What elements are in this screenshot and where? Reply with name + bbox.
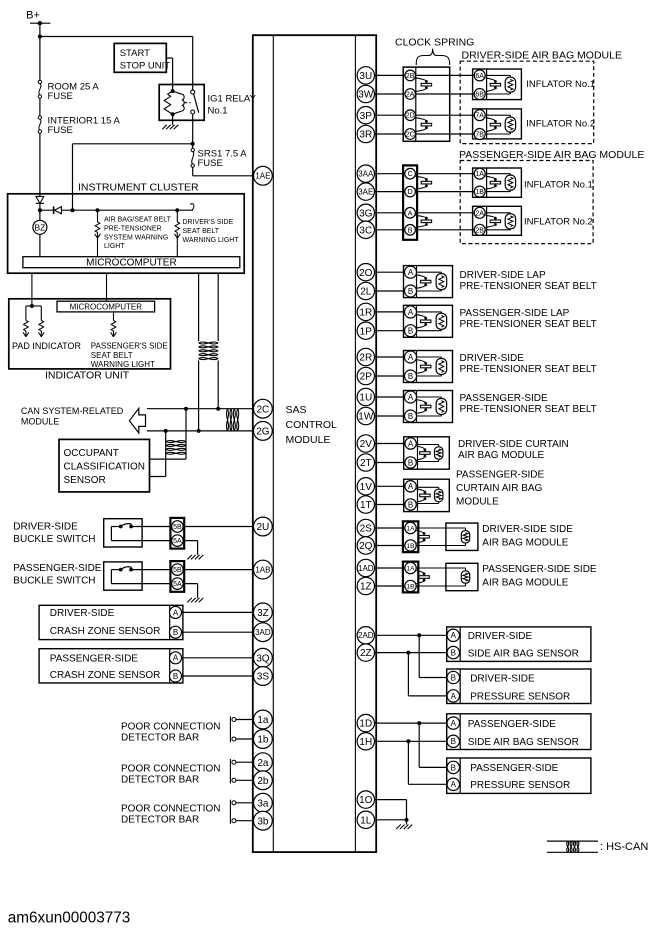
svg-text:AIR BAG MODULE: AIR BAG MODULE xyxy=(458,450,544,461)
svg-text:A: A xyxy=(451,692,457,701)
svg-text:D: D xyxy=(408,189,413,196)
svg-text:SIDE AIR BAG SENSOR: SIDE AIR BAG SENSOR xyxy=(468,648,579,659)
svg-text:1B: 1B xyxy=(475,189,484,196)
svg-text:2b: 2b xyxy=(257,776,269,787)
svg-text:FUSE: FUSE xyxy=(48,125,73,136)
svg-text:2R: 2R xyxy=(359,353,372,364)
svg-text:B: B xyxy=(408,227,413,234)
svg-text:1W: 1W xyxy=(358,412,374,423)
svg-text:A: A xyxy=(173,654,179,663)
svg-text:1T: 1T xyxy=(360,500,372,511)
svg-text:DRIVER-SIDE LAP: DRIVER-SIDE LAP xyxy=(460,270,546,281)
svg-text:2B: 2B xyxy=(406,73,415,80)
svg-text:3AA: 3AA xyxy=(358,170,374,179)
svg-text:7B: 7B xyxy=(475,132,484,139)
svg-text:1P: 1P xyxy=(360,326,373,337)
svg-text:2A: 2A xyxy=(475,210,484,217)
svg-text:PRE-TENSIONER SEAT BELT: PRE-TENSIONER SEAT BELT xyxy=(460,319,597,330)
svg-text:1V: 1V xyxy=(360,482,373,493)
svg-text:1A: 1A xyxy=(407,565,416,572)
svg-text:INDICATOR UNIT: INDICATOR UNIT xyxy=(45,370,130,382)
svg-text:2S: 2S xyxy=(360,524,373,535)
svg-text:No.1: No.1 xyxy=(208,106,228,117)
svg-text:PRE-TENSIONER: PRE-TENSIONER xyxy=(104,226,162,233)
svg-text:PASSENGER-SIDE SIDE: PASSENGER-SIDE SIDE xyxy=(482,564,597,575)
svg-text:A: A xyxy=(408,308,414,317)
svg-text:DRIVER-SIDE AIR BAG MODULE: DRIVER-SIDE AIR BAG MODULE xyxy=(462,49,622,61)
svg-text:C: C xyxy=(408,171,413,178)
svg-text:1AD: 1AD xyxy=(358,564,374,573)
svg-text:DRIVER-SIDE: DRIVER-SIDE xyxy=(50,608,115,619)
svg-text:FUSE: FUSE xyxy=(198,158,223,169)
svg-text:A: A xyxy=(408,393,414,402)
svg-text:B: B xyxy=(451,763,456,772)
svg-text:2AD: 2AD xyxy=(358,631,374,640)
svg-text:3a: 3a xyxy=(257,798,269,809)
svg-text:PASSENGER-SIDE: PASSENGER-SIDE xyxy=(460,393,548,404)
svg-text:CURTAIN AIR BAG: CURTAIN AIR BAG xyxy=(456,483,543,494)
svg-text:1U: 1U xyxy=(359,393,372,404)
svg-text:PASSENGER-SIDE: PASSENGER-SIDE xyxy=(456,470,544,481)
svg-text:BUCKLE SWITCH: BUCKLE SWITCH xyxy=(13,575,95,586)
svg-text:A: A xyxy=(451,780,457,789)
svg-text:DRIVER-SIDE: DRIVER-SIDE xyxy=(470,673,535,684)
svg-text:PASSENGER-SIDE: PASSENGER-SIDE xyxy=(468,719,556,730)
svg-text:START: START xyxy=(120,48,150,59)
svg-text:7A: 7A xyxy=(475,113,484,120)
svg-text:BUCKLE SWITCH: BUCKLE SWITCH xyxy=(13,534,95,545)
svg-text:B: B xyxy=(408,500,413,509)
svg-text:POOR CONNECTION: POOR CONNECTION xyxy=(121,722,220,733)
svg-text:2T: 2T xyxy=(360,458,372,469)
svg-text:SEAT BELT: SEAT BELT xyxy=(183,228,220,235)
svg-text:BZ: BZ xyxy=(34,222,45,232)
svg-text:1D: 1D xyxy=(359,719,372,730)
svg-text:PASSENGER'S SIDE: PASSENGER'S SIDE xyxy=(91,342,168,351)
svg-text:1AB: 1AB xyxy=(255,565,270,574)
svg-text:CRASH ZONE SENSOR: CRASH ZONE SENSOR xyxy=(50,626,161,637)
svg-text:5A: 5A xyxy=(173,538,182,545)
svg-text:AIR BAG/SEAT BELT: AIR BAG/SEAT BELT xyxy=(104,217,172,224)
svg-text:A: A xyxy=(408,439,414,448)
svg-text:SAS: SAS xyxy=(286,404,307,416)
svg-text:5A: 5A xyxy=(173,581,182,588)
svg-text:STOP UNIT: STOP UNIT xyxy=(120,61,171,72)
svg-text:3S: 3S xyxy=(257,672,270,683)
svg-text:MODULE: MODULE xyxy=(456,497,499,508)
svg-text:FUSE: FUSE xyxy=(48,91,73,102)
svg-text:2C: 2C xyxy=(406,132,415,139)
svg-text:1b: 1b xyxy=(257,735,269,746)
svg-text:A: A xyxy=(408,268,414,277)
svg-text:A: A xyxy=(408,210,413,217)
svg-text:A: A xyxy=(451,719,457,728)
svg-text:B: B xyxy=(451,673,456,682)
svg-text:MODULE: MODULE xyxy=(21,416,60,426)
svg-text:1B: 1B xyxy=(407,583,415,590)
svg-text:PASSENGER-SIDE: PASSENGER-SIDE xyxy=(470,763,558,774)
svg-text:DETECTOR BAR: DETECTOR BAR xyxy=(121,733,199,744)
svg-text:B: B xyxy=(408,327,413,336)
svg-text:CAN SYSTEM-RELATED: CAN SYSTEM-RELATED xyxy=(21,406,124,416)
svg-text:3AE: 3AE xyxy=(358,187,373,196)
svg-text:IG1 RELAY: IG1 RELAY xyxy=(208,94,257,105)
svg-text:2G: 2G xyxy=(256,427,270,438)
svg-text:PASSENGER-SIDE: PASSENGER-SIDE xyxy=(50,654,138,665)
svg-text:DRIVER-SIDE CURTAIN: DRIVER-SIDE CURTAIN xyxy=(458,439,569,450)
svg-text:5B: 5B xyxy=(173,524,182,531)
svg-text:POOR CONNECTION: POOR CONNECTION xyxy=(121,764,220,775)
svg-text:1O: 1O xyxy=(359,795,373,806)
svg-text:B+: B+ xyxy=(26,10,40,22)
svg-text:3b: 3b xyxy=(257,816,269,827)
svg-text:AIR BAG MODULE: AIR BAG MODULE xyxy=(482,578,568,589)
svg-text:A: A xyxy=(408,353,414,362)
svg-text:B: B xyxy=(408,287,413,296)
svg-text:: HS-CAN: : HS-CAN xyxy=(600,841,648,853)
svg-text:6B: 6B xyxy=(475,92,484,99)
svg-text:A: A xyxy=(451,631,457,640)
svg-text:INFLATOR No.2: INFLATOR No.2 xyxy=(524,217,593,228)
svg-text:1B: 1B xyxy=(407,543,415,550)
svg-text:1Z: 1Z xyxy=(360,582,372,593)
svg-text:PRESSURE SENSOR: PRESSURE SENSOR xyxy=(470,692,570,703)
svg-text:CLASSIFICATION: CLASSIFICATION xyxy=(64,462,146,473)
svg-text:CRASH ZONE SENSOR: CRASH ZONE SENSOR xyxy=(50,670,161,681)
svg-text:B: B xyxy=(408,458,413,467)
svg-text:MICROCOMPUTER: MICROCOMPUTER xyxy=(86,258,177,269)
svg-text:INFLATOR No.1: INFLATOR No.1 xyxy=(526,79,595,90)
svg-text:WARNING LIGHT: WARNING LIGHT xyxy=(183,237,240,244)
svg-text:A: A xyxy=(408,482,414,491)
svg-text:2P: 2P xyxy=(360,372,373,383)
svg-text:3AD: 3AD xyxy=(255,628,271,637)
svg-text:3Z: 3Z xyxy=(257,608,269,619)
svg-text:PAD INDICATOR: PAD INDICATOR xyxy=(12,341,82,351)
svg-text:5B: 5B xyxy=(173,567,182,574)
svg-text:INFLATOR No.2: INFLATOR No.2 xyxy=(526,118,595,129)
svg-text:3P: 3P xyxy=(360,111,373,122)
svg-text:2Z: 2Z xyxy=(360,648,372,659)
svg-text:2D: 2D xyxy=(406,113,415,120)
svg-text:3C: 3C xyxy=(359,225,372,236)
svg-text:SENSOR: SENSOR xyxy=(64,475,106,486)
svg-text:1H: 1H xyxy=(359,737,372,748)
svg-text:DRIVER'S SIDE: DRIVER'S SIDE xyxy=(183,219,234,226)
svg-text:CONTROL: CONTROL xyxy=(286,419,337,431)
svg-text:DRIVER-SIDE: DRIVER-SIDE xyxy=(13,522,78,533)
svg-text:2U: 2U xyxy=(257,522,270,533)
svg-text:DETECTOR BAR: DETECTOR BAR xyxy=(121,815,199,826)
svg-text:DRIVER-SIDE: DRIVER-SIDE xyxy=(460,353,525,364)
svg-text:2a: 2a xyxy=(257,758,269,769)
svg-text:3R: 3R xyxy=(359,130,372,141)
svg-text:2V: 2V xyxy=(360,439,373,450)
svg-text:B: B xyxy=(451,737,456,746)
svg-text:1AE: 1AE xyxy=(255,172,270,181)
svg-text:MICROCOMPUTER: MICROCOMPUTER xyxy=(70,303,143,312)
svg-text:DRIVER-SIDE: DRIVER-SIDE xyxy=(468,631,533,642)
svg-text:AIR BAG MODULE: AIR BAG MODULE xyxy=(482,538,568,549)
svg-text:2L: 2L xyxy=(360,287,372,298)
svg-text:2O: 2O xyxy=(359,268,373,279)
svg-text:DRIVER-SIDE SIDE: DRIVER-SIDE SIDE xyxy=(482,524,573,535)
svg-text:1R: 1R xyxy=(359,308,372,319)
svg-text:POOR CONNECTION: POOR CONNECTION xyxy=(121,804,220,815)
svg-text:PASSENGER-SIDE AIR BAG MODULE: PASSENGER-SIDE AIR BAG MODULE xyxy=(459,149,644,161)
svg-text:B: B xyxy=(173,628,178,637)
svg-text:INSTRUMENT CLUSTER: INSTRUMENT CLUSTER xyxy=(78,182,199,194)
svg-text:B: B xyxy=(408,372,413,381)
svg-text:PASSENGER-SIDE: PASSENGER-SIDE xyxy=(13,563,101,574)
svg-text:1A: 1A xyxy=(407,525,416,532)
svg-text:MODULE: MODULE xyxy=(286,434,331,446)
svg-text:2A: 2A xyxy=(406,92,415,99)
svg-text:6A: 6A xyxy=(475,73,484,80)
svg-text:2C: 2C xyxy=(257,404,270,415)
svg-text:SIDE AIR BAG SENSOR: SIDE AIR BAG SENSOR xyxy=(468,737,579,748)
svg-text:1L: 1L xyxy=(360,815,372,826)
svg-text:PRE-TENSIONER SEAT BELT: PRE-TENSIONER SEAT BELT xyxy=(460,404,597,415)
svg-text:LIGHT: LIGHT xyxy=(104,243,125,250)
svg-text:PRE-TENSIONER SEAT BELT: PRE-TENSIONER SEAT BELT xyxy=(460,364,597,375)
svg-text:INFLATOR No.1: INFLATOR No.1 xyxy=(524,179,593,190)
svg-text:3W: 3W xyxy=(358,90,374,101)
svg-text:3Q: 3Q xyxy=(256,653,270,664)
svg-text:B: B xyxy=(173,672,178,681)
svg-text:2B: 2B xyxy=(475,227,484,234)
svg-text:DETECTOR BAR: DETECTOR BAR xyxy=(121,775,199,786)
svg-text:PRE-TENSIONER SEAT BELT: PRE-TENSIONER SEAT BELT xyxy=(460,281,597,292)
svg-text:SEAT BELT: SEAT BELT xyxy=(91,351,133,360)
svg-text:PRESSURE SENSOR: PRESSURE SENSOR xyxy=(470,780,570,791)
svg-text:3G: 3G xyxy=(359,208,373,219)
svg-text:OCCUPANT: OCCUPANT xyxy=(64,448,119,459)
svg-text:A: A xyxy=(173,608,179,617)
svg-text:CLOCK SPRING: CLOCK SPRING xyxy=(395,37,474,49)
svg-text:SYSTEM WARNING: SYSTEM WARNING xyxy=(104,235,168,242)
svg-text:3U: 3U xyxy=(359,71,372,82)
svg-text:WARNING LIGHT: WARNING LIGHT xyxy=(91,360,155,369)
svg-text:2Q: 2Q xyxy=(359,541,373,552)
svg-text:B: B xyxy=(408,412,413,421)
svg-text:1a: 1a xyxy=(257,715,269,726)
svg-text:am6xun00003773: am6xun00003773 xyxy=(8,909,130,926)
svg-text:B: B xyxy=(451,648,456,657)
svg-text:1A: 1A xyxy=(475,171,484,178)
svg-text:PASSENGER-SIDE LAP: PASSENGER-SIDE LAP xyxy=(460,308,570,319)
